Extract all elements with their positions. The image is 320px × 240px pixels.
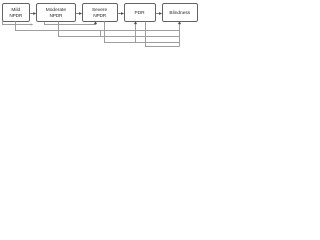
svg-text:Mild: Mild [11,7,20,13]
connector from Moderate bottom to Severe bottom, rail level 1 right segment [45,22,96,25]
vertical tail into PDR [135,24,137,43]
svg-text:NPDR: NPDR [9,13,23,19]
connector from Mild bottom-left, rail level 1 left segment [3,22,34,26]
vertical tail into Blindness [179,24,181,47]
box Blindness [163,4,198,22]
arrow PDR to Blindness [156,12,162,15]
arrow Moderate to Severe [76,12,82,15]
up arrowhead into PDR [134,21,137,24]
box Mild NPDR [3,4,30,22]
svg-text:PDR: PDR [135,10,146,16]
arrow Mild to Moderate [30,12,36,15]
background [0,0,200,51]
box PDR [125,4,156,22]
box Moderate NPDR [37,4,76,22]
connector from Moderate bottom along rail level 3 [59,22,180,37]
svg-text:Severe: Severe [92,7,108,13]
box Severe NPDR [83,4,118,22]
up arrowhead into Blindness [178,21,181,24]
connector from PDR bottom along rail level 5 [146,22,180,47]
svg-text:NPDR: NPDR [93,13,107,19]
short link between rail 2 and rail 3 [100,31,102,37]
arrow Severe to PDR [118,12,124,15]
up arrowhead into Severe [94,21,97,24]
svg-text:Blindness: Blindness [169,10,190,16]
svg-text:NPDR: NPDR [50,13,64,19]
connector from Mild bottom-center along rail level 2 [16,22,180,31]
connector from Severe bottom along rail level 4 [105,22,180,43]
svg-text:Moderate: Moderate [46,7,67,13]
